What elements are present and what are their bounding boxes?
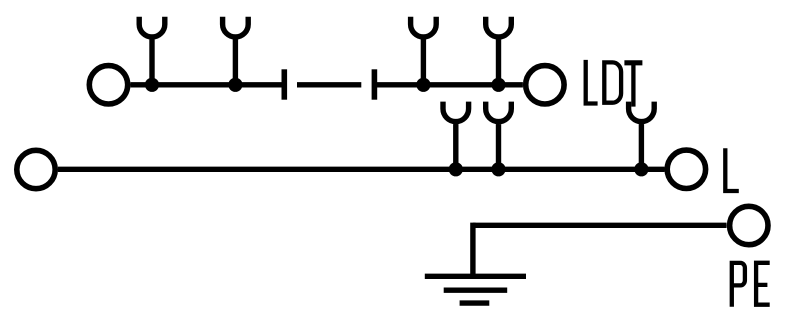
node junction dot (L row, x=641)	[634, 162, 648, 176]
clamp contact fork F1	[139, 17, 165, 85]
ground bar 1	[425, 274, 526, 279]
disconnect terminal bar right	[372, 69, 378, 99]
disconnect link bar	[297, 82, 361, 87]
clamp contact fork F4	[486, 17, 512, 85]
wire (L row)	[58, 167, 665, 172]
label L	[725, 148, 739, 191]
node junction dot (L row, x=456)	[449, 162, 463, 176]
clamp contact fork F7	[629, 102, 655, 170]
node junction dot (L row, x=498)	[491, 162, 505, 176]
node junction dot (LDT row, x=152)	[145, 78, 159, 92]
wire (PE row drop to ground)	[470, 223, 475, 277]
ground bar 3	[460, 300, 490, 305]
wire (LDT row, left segment)	[131, 82, 285, 87]
label LDT	[586, 60, 634, 107]
terminal circle X4 (L row, right)	[667, 150, 705, 188]
wire (LDT row, right segment)	[374, 82, 523, 87]
terminal circle X3 (L row, left)	[17, 150, 55, 188]
node junction dot (LDT row, x=498)	[491, 78, 505, 92]
wire (PE row horizontal)	[473, 223, 727, 228]
clamp contact fork F3	[411, 17, 437, 85]
node junction dot (LDT row, x=423)	[416, 78, 430, 92]
terminal circle X1 (LDT row, left)	[89, 66, 127, 104]
label PE	[730, 261, 770, 307]
disconnect terminal bar left	[281, 69, 287, 99]
node junction dot (LDT row, x=235)	[228, 78, 242, 92]
clamp contact fork F2	[223, 17, 249, 85]
clamp contact fork F5	[443, 102, 469, 170]
terminal circle X5 (PE)	[730, 206, 768, 244]
label LDT T-bar	[624, 60, 642, 65]
clamp contact fork F6	[486, 102, 512, 170]
ground bar 2	[444, 288, 508, 293]
terminal circle X2 (LDT row, right)	[526, 66, 564, 104]
